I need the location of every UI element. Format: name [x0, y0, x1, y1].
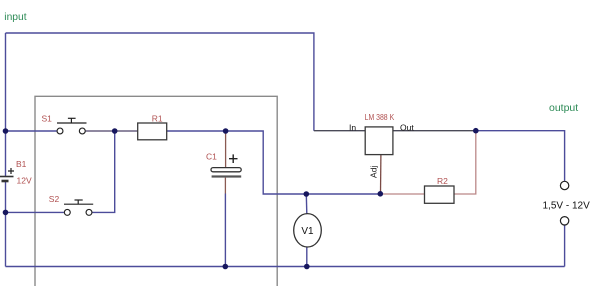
wire S2 row right up — [92, 131, 114, 212]
wire input top — [6, 33, 314, 131]
svg-text:R1: R1 — [152, 113, 163, 123]
svg-text:Out: Out — [400, 123, 414, 133]
wire S2 row left — [6, 211, 64, 213]
node C1 top — [223, 128, 229, 134]
wire S1 to R1 — [86, 130, 138, 132]
net boundary box — [35, 96, 277, 286]
output terminal bottom — [560, 217, 568, 225]
wire V1 bottom lead — [306, 247, 308, 267]
resistor R2 — [425, 176, 455, 203]
wire S1 row left — [6, 130, 57, 132]
voltmeter V1 — [294, 214, 322, 247]
svg-text:In: In — [349, 123, 356, 133]
wire Adj lead — [380, 155, 382, 194]
node V1 bottom — [304, 264, 310, 270]
wire Out to output — [476, 131, 565, 181]
node Out — [473, 128, 479, 134]
battery B1 — [0, 159, 32, 186]
svg-text:input: input — [4, 12, 26, 23]
wire bottom rail — [6, 266, 565, 268]
wire left rail lower — [5, 182, 7, 267]
capacitor C1 — [206, 151, 241, 177]
wire R2 left stub — [380, 193, 424, 195]
output terminal top — [560, 181, 568, 189]
svg-text:R2: R2 — [437, 176, 448, 186]
svg-text:LM 388 K: LM 388 K — [365, 113, 395, 122]
wire V1 top lead — [305, 194, 308, 214]
resistor R1 — [138, 113, 167, 139]
wire C1 bottom lead stub — [224, 178, 226, 194]
wire C1 bottom lead — [224, 194, 226, 267]
wire C1 top lead — [225, 131, 227, 168]
svg-text:output: output — [549, 102, 578, 114]
svg-text:S1: S1 — [42, 114, 53, 124]
wire R2 right stub up to Out — [454, 131, 476, 194]
node S1 S2 join — [112, 128, 118, 134]
node battery plus S1 — [3, 128, 9, 134]
svg-text:B1: B1 — [16, 159, 27, 169]
regulator U1 LM388K — [349, 113, 414, 178]
wire Out pin — [393, 130, 476, 132]
node C1 bottom — [223, 264, 229, 270]
svg-text:C1: C1 — [206, 151, 217, 161]
svg-text:12V: 12V — [17, 175, 32, 185]
node Adj — [378, 191, 384, 197]
wire In pin — [314, 130, 365, 132]
switch S2 — [49, 194, 93, 215]
node V1 top — [304, 191, 310, 197]
svg-text:1,5V - 12V: 1,5V - 12V — [543, 201, 591, 212]
node battery minus S2 — [3, 210, 9, 216]
svg-text:V1: V1 — [301, 226, 314, 237]
wire output bottom terminal — [564, 225, 566, 266]
wire left rail upper — [5, 33, 7, 176]
wire R1 to C1 node and down — [167, 131, 381, 194]
switch S1 — [42, 114, 87, 134]
svg-text:Adj: Adj — [368, 166, 378, 178]
svg-text:S2: S2 — [49, 194, 60, 204]
